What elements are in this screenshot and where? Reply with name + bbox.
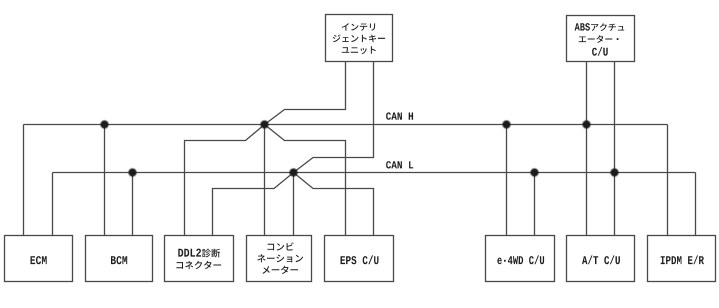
label U4 [111, 256, 127, 264]
wire CAN H right drop to IPDM E/R pin 1 [667, 125, 669, 236]
box U8 e-4WD C/U [486, 236, 555, 282]
node center junction on CAN L [289, 168, 297, 176]
box U5 DDL2 diagnostic connector [165, 236, 234, 282]
node e-4WD junction on CAN H [502, 120, 510, 128]
node BCM junction on CAN H [100, 120, 108, 128]
label U9 [582, 255, 620, 264]
node BCM junction on CAN L [128, 168, 136, 176]
wire DDL2 connector pin 2 from CAN L junction [213, 173, 294, 236]
wire e-4WD C/U pin 2 drop from CAN L junction [534, 173, 536, 236]
label U1 line1 [342, 23, 375, 31]
wire ABS actuator pin 2 through CAN L junction to A/T C/U pin 2 [614, 62, 616, 236]
label net CAN L [386, 161, 413, 168]
box U10 IPDM E/R [648, 236, 716, 282]
node A/T junction on CAN H [582, 120, 590, 128]
wire CAN H bus line [24, 124, 668, 126]
wire EPS C/U pin 2 from CAN L junction [294, 173, 374, 236]
label U10 [661, 255, 704, 264]
box U7 EPS C/U [325, 236, 394, 282]
label net CAN H [386, 112, 413, 119]
wire intelligent key unit pin 2 to CAN L junction [294, 62, 374, 173]
wire CAN L left drop to ECM pin 2 [52, 173, 54, 236]
wire DDL2 connector pin 1 from CAN H junction [185, 125, 265, 236]
box U6 combination meter [247, 236, 312, 282]
label U2 line3 [592, 47, 608, 56]
wire e-4WD C/U pin 1 drop from CAN H junction [506, 125, 508, 236]
label U6 line1 [268, 242, 294, 250]
box U4 BCM [86, 236, 153, 282]
wire ABS actuator pin 1 through CAN H junction to A/T C/U pin 1 [586, 62, 588, 236]
label U3 [31, 256, 47, 264]
label U2 line1 [575, 23, 625, 31]
wire intelligent key unit pin 1 to CAN H junction [265, 62, 346, 125]
label U6 line2 [257, 254, 303, 262]
wire combination meter pin 2 drop from CAN L junction [293, 173, 295, 236]
wire combination meter pin 1 drop from CAN H junction [264, 125, 266, 236]
node A/T junction on CAN L [610, 168, 618, 176]
box U9 A/T C/U [567, 236, 635, 282]
wire BCM pin 2 drop from CAN L junction [132, 173, 134, 236]
label U6 line3 [262, 266, 298, 274]
label U1 line2 [333, 35, 385, 43]
label U2 line2 [579, 35, 619, 43]
wire BCM pin 1 drop from CAN H junction [104, 125, 106, 236]
label U8 [497, 255, 544, 264]
label U7 [341, 255, 379, 264]
wire CAN L right drop to IPDM E/R pin 2 [695, 173, 697, 236]
box U1 intelligent key unit [326, 15, 393, 62]
wire EPS C/U pin 1 from CAN H junction [265, 125, 346, 236]
label U5 line2 [176, 261, 221, 269]
node e-4WD junction on CAN L [530, 168, 538, 176]
wire CAN H left drop to ECM pin 1 [23, 125, 25, 236]
box U2 ABS actuator C/U [567, 16, 635, 62]
wire CAN L bus line [53, 172, 696, 174]
box U3 ECM [5, 236, 73, 282]
node center junction on CAN H [260, 120, 268, 128]
label U1 line3 [342, 46, 376, 54]
label U5 line1 [178, 249, 220, 258]
